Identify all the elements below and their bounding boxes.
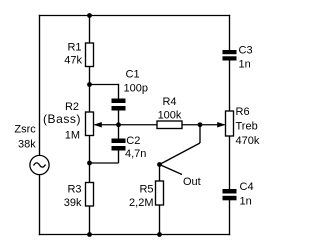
resistor R5 bbox=[156, 181, 164, 205]
capacitor C3 bbox=[223, 50, 237, 61]
wire out drop from bus bbox=[199, 124, 201, 143]
wire bus R4 to R6 wiper bbox=[182, 124, 225, 126]
wire mid rail R1 to R2 bbox=[89, 66, 91, 113]
wire out diagonal bbox=[160, 143, 201, 165]
svg-text:39k: 39k bbox=[64, 197, 82, 209]
wire top rail bbox=[39, 15, 230, 17]
capacitor C2 bbox=[112, 139, 126, 151]
svg-text:R5: R5 bbox=[139, 184, 153, 196]
svg-text:(Bass): (Bass) bbox=[43, 112, 81, 126]
resistor R1 bbox=[86, 43, 94, 67]
wire C1 branch horizontal bbox=[90, 84, 119, 86]
wire right rail C3 to R6 bbox=[229, 60, 231, 112]
capacitor C4 bbox=[223, 189, 237, 200]
svg-text:47k: 47k bbox=[64, 55, 82, 67]
junction R2-R3 / C2 bbox=[87, 161, 92, 166]
svg-text:100p: 100p bbox=[124, 83, 148, 95]
junction bus / C1-C2 bbox=[116, 122, 121, 127]
wire right rail C4 to bottom bbox=[229, 200, 231, 235]
resistor R6 (Treble pot body) bbox=[226, 111, 234, 136]
svg-text:R6: R6 bbox=[236, 106, 250, 118]
svg-text:Out: Out bbox=[183, 176, 201, 188]
wire C2 bottom horizontal to mid rail bbox=[90, 162, 119, 164]
wire left rail lower bbox=[39, 174, 41, 235]
svg-text:C1: C1 bbox=[126, 69, 140, 81]
resistor R2 (Bass pot body) bbox=[86, 112, 94, 136]
wire mid rail R3 to bottom bbox=[89, 206, 91, 236]
wire node to R5 bbox=[159, 165, 161, 182]
svg-text:1M: 1M bbox=[65, 130, 80, 142]
arrow R6 wiper bbox=[217, 122, 225, 128]
wire mid rail R2 to R3 bbox=[89, 135, 91, 183]
wire left rail upper bbox=[39, 15, 41, 156]
svg-text:38k: 38k bbox=[18, 139, 36, 151]
svg-text:2,2M: 2,2M bbox=[129, 197, 153, 209]
junction bottom rail / R5 bbox=[157, 232, 162, 237]
svg-text:R1: R1 bbox=[67, 42, 81, 54]
svg-text:C3: C3 bbox=[239, 45, 253, 57]
svg-text:1n: 1n bbox=[239, 59, 251, 71]
svg-text:470k: 470k bbox=[236, 135, 260, 147]
svg-text:100k: 100k bbox=[158, 110, 182, 122]
resistor R3 bbox=[86, 183, 94, 207]
svg-text:C4: C4 bbox=[240, 181, 254, 193]
wire C1 plate to bus bbox=[118, 110, 120, 126]
svg-text:Treb: Treb bbox=[236, 121, 258, 133]
svg-text:1n: 1n bbox=[240, 196, 252, 208]
wire right rail top to C3 bbox=[229, 15, 231, 51]
svg-text:4,7n: 4,7n bbox=[125, 148, 146, 160]
wire right rail R6 to C4 bbox=[229, 136, 231, 190]
wire mid rail top to R1 bbox=[89, 15, 91, 44]
svg-text:R3: R3 bbox=[67, 184, 81, 196]
wire bus R2 wiper to R4 bbox=[95, 124, 158, 126]
wire C1 branch down to plate bbox=[118, 84, 120, 99]
junction top rail / mid rail bbox=[87, 13, 92, 18]
node Out junction bbox=[157, 162, 162, 167]
svg-text:R4: R4 bbox=[162, 96, 176, 108]
wire bottom rail bbox=[39, 234, 230, 236]
junction R1-R2 / C1 bbox=[87, 82, 92, 87]
svg-text:C2: C2 bbox=[126, 135, 140, 147]
wire R5 to bottom rail bbox=[159, 205, 161, 236]
wire Out leader bbox=[160, 165, 183, 175]
wire bus C2 down to plate bbox=[118, 124, 120, 139]
arrow R2 wiper bbox=[94, 122, 102, 128]
svg-text:Zsrc: Zsrc bbox=[14, 124, 36, 136]
wire C2 plate down bbox=[118, 150, 120, 163]
junction bus / out drop bbox=[198, 122, 203, 127]
source Zsrc bbox=[30, 155, 49, 174]
capacitor C1 bbox=[112, 99, 126, 111]
resistor R4 bbox=[157, 121, 182, 129]
junction bottom rail / mid rail bbox=[87, 232, 92, 237]
